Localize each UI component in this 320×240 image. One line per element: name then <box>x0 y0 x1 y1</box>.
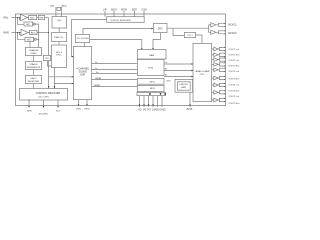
block line out amp outer <box>175 79 193 92</box>
pin VINR stub <box>12 32 22 34</box>
svg-text:(I2C / SPI): (I2C / SPI) <box>38 96 48 98</box>
block mixer B <box>137 85 164 91</box>
svg-text:PLL FILTER: PLL FILTER <box>77 38 89 40</box>
svg-text:MIX2: MIX2 <box>150 88 156 90</box>
svg-text:SEL &: SEL & <box>56 52 63 54</box>
svg-text:MCKI: MCKI <box>121 8 127 11</box>
svg-text:4-CHANNEL: 4-CHANNEL <box>76 68 90 71</box>
block PCM processor <box>137 59 164 75</box>
wire fork <box>216 23 225 25</box>
block analog output driver <box>193 43 212 101</box>
svg-text:VSS2: VSS2 <box>84 109 90 111</box>
wire ADC L out to bus <box>45 17 49 19</box>
wire mic gain L <box>32 23 34 25</box>
wire dsp out 1 <box>92 63 138 65</box>
svg-text:ANALOG AMP: ANALOG AMP <box>196 70 211 73</box>
svg-text:CSN: CSN <box>141 8 146 11</box>
node dot R1 <box>17 32 18 33</box>
block SRC <box>153 23 167 32</box>
crystal X1 body <box>57 7 61 10</box>
svg-text:VD: VD <box>138 109 142 111</box>
pin tick d6 <box>161 96 163 107</box>
pin arrow out <box>224 53 225 54</box>
svg-text:MIX1: MIX1 <box>150 81 156 83</box>
buffer U11 <box>211 30 216 34</box>
pin LR tick <box>104 11 106 17</box>
svg-text:SDTI: SDTI <box>132 8 138 11</box>
wire osc to pll <box>58 28 60 32</box>
svg-text:VSS1: VSS1 <box>76 109 82 111</box>
svg-text:DAC2: DAC2 <box>31 77 38 80</box>
pin arrow VSS2 <box>86 104 88 106</box>
arrow into control reg a <box>48 86 50 88</box>
svg-text:CONTROL REGISTERS: CONTROL REGISTERS <box>110 20 131 22</box>
pin arrow SEN <box>28 106 30 108</box>
arrowheads dark <box>17 17 193 108</box>
pin BICK tick <box>113 11 115 17</box>
pad dot 1 <box>149 93 150 95</box>
block PLL filter <box>75 34 89 42</box>
svg-text:So: So <box>165 74 168 76</box>
block HPF L <box>38 15 44 19</box>
output buffer B1 <box>212 48 214 50</box>
svg-text:VOUT3 Rch: VOUT3 Rch <box>228 79 239 81</box>
block PLL2 <box>184 32 195 37</box>
buffer U10 <box>211 23 216 27</box>
pin VSS1 tick <box>78 100 80 106</box>
pin arrow SCL <box>43 106 45 108</box>
wire <box>84 43 86 47</box>
svg-text:LPF: LPF <box>45 58 50 60</box>
pin arrow out <box>224 101 225 102</box>
svg-text:SEN: SEN <box>27 110 32 112</box>
svg-text:CHARGE: CHARGE <box>29 49 39 52</box>
wire pll to dpll <box>58 42 60 45</box>
svg-text:VOUT5 Lch: VOUT5 Lch <box>228 96 239 98</box>
pin SDA tick <box>57 100 59 107</box>
pin tick d2 <box>143 96 145 107</box>
block line out amp inner <box>177 82 190 90</box>
pin arrow out <box>224 71 225 72</box>
arrow into dsp 2 <box>72 76 74 78</box>
wire feedback L <box>17 18 24 25</box>
pin arrow d4 <box>152 104 154 106</box>
pin arrow out <box>224 83 225 84</box>
pin arrow out <box>224 79 225 80</box>
pin arrow out <box>224 26 225 27</box>
svg-text:VOUT4 Lch: VOUT4 Lch <box>228 85 239 87</box>
pin tick d1 <box>139 96 141 107</box>
block ADC R <box>30 30 37 34</box>
block MIC gain R <box>25 37 34 41</box>
pin arrow out <box>224 90 225 91</box>
wire dpll out to dsp <box>55 68 74 84</box>
wire <box>28 17 29 19</box>
svg-text:VOUT1 Rch: VOUT1 Rch <box>228 55 239 57</box>
pin arrow d2 <box>143 104 145 106</box>
wire mic gain R <box>34 38 35 40</box>
svg-text:VOUT1 Lch: VOUT1 Lch <box>228 49 239 51</box>
wire mic gain R down <box>29 42 31 48</box>
svg-text:DVDD DVSS: DVDD DVSS <box>152 109 166 111</box>
svg-text:OUT: OUT <box>200 74 205 76</box>
svg-text:OSC: OSC <box>57 20 62 22</box>
block oscillator <box>52 17 67 29</box>
arrow into dsp 1 <box>72 56 74 58</box>
wire opamp L lower input <box>19 18 20 20</box>
pin arrow out <box>224 86 225 87</box>
output buffer B7 <box>212 84 214 86</box>
node dot L1 <box>17 17 18 18</box>
svg-text:MCKO1: MCKO1 <box>228 25 237 27</box>
pin arrow d3 <box>148 104 150 106</box>
pin arrow out <box>224 62 225 63</box>
block charge pump <box>25 47 41 55</box>
wire fork <box>218 32 225 34</box>
svg-text:ADC: ADC <box>30 16 35 19</box>
adc bus vertical <box>48 18 50 56</box>
svg-text:STABLE: STABLE <box>29 63 38 66</box>
pin arrow out <box>224 33 225 34</box>
op-amp A1 <box>21 14 28 20</box>
svg-text:VOUT2 Rch: VOUT2 Rch <box>228 65 239 67</box>
wire <box>209 31 211 33</box>
svg-text:CONTROL REGISTER: CONTROL REGISTER <box>36 92 61 95</box>
svg-text:XTAL PLL: XTAL PLL <box>54 36 65 39</box>
pin arrow out <box>224 76 225 77</box>
svg-text:VINR: VINR <box>3 31 9 34</box>
MCKO buffer tree <box>209 23 226 35</box>
crystal X1 leg XTI <box>55 7 57 17</box>
wire opamp R lower input <box>19 33 21 35</box>
pin arrow out <box>224 61 225 62</box>
pin VSS2 tick <box>86 100 88 106</box>
block serial interface <box>107 17 145 23</box>
wire <box>209 24 211 26</box>
block DPLL tall <box>52 45 67 68</box>
block mixer A <box>137 78 164 84</box>
block interface buffer <box>137 49 166 59</box>
wire control bus a <box>48 77 50 88</box>
wire pcm out 2 <box>164 70 193 72</box>
output buffer B8 <box>212 91 214 93</box>
node dot bus <box>48 32 49 33</box>
svg-text:MIC: MIC <box>27 39 31 41</box>
svg-text:SRC: SRC <box>158 28 163 30</box>
pin tick d3 <box>148 96 150 107</box>
wire fork <box>216 31 225 33</box>
pin arrow out <box>224 23 225 24</box>
output buffer B2 <box>212 54 214 56</box>
wire pll filter right <box>90 40 142 50</box>
block control register bottom <box>20 89 68 101</box>
wire <box>33 84 35 89</box>
pad dot 2 <box>160 93 161 95</box>
wire dsp out 2 <box>92 69 138 71</box>
pin arrow out <box>224 47 225 48</box>
svg-text:MCKO2: MCKO2 <box>228 33 237 35</box>
wire lineout gnd <box>189 92 191 107</box>
svg-text:(I2C/SPI): (I2C/SPI) <box>39 113 48 115</box>
pin arrow out <box>224 93 225 94</box>
gain stage triangle L <box>34 23 36 26</box>
svg-text:ADC: ADC <box>31 31 36 34</box>
node dot sen <box>29 100 30 101</box>
svg-text:Ro: Ro <box>165 68 169 70</box>
wire ADC R out to bus <box>37 32 49 34</box>
arrow into buffer box 1 <box>141 48 143 50</box>
svg-text:XTI: XTI <box>50 5 54 8</box>
wire dsp out 5 <box>92 86 138 88</box>
wire pcm out 3 <box>164 76 193 78</box>
wire fork <box>218 25 225 27</box>
output buffers column <box>212 23 226 103</box>
pin VINL stub <box>12 17 21 19</box>
arrow into driver 2 <box>191 70 193 72</box>
output buffer B4 <box>212 63 214 65</box>
block audio DSP core <box>73 46 91 99</box>
output buffer B9 <box>212 99 214 101</box>
wire dsp out 4 <box>92 79 138 81</box>
pad dot 3 <box>164 93 165 95</box>
svg-text:MIC: MIC <box>26 24 30 26</box>
svg-text:PCM: PCM <box>148 67 153 69</box>
svg-text:DPLL: DPLL <box>56 55 62 57</box>
svg-text:SDO: SDO <box>166 81 171 83</box>
svg-text:AVSS: AVSS <box>186 108 192 111</box>
svg-text:DSP: DSP <box>80 74 85 76</box>
svg-text:VOUT2 Lch: VOUT2 Lch <box>228 60 239 62</box>
wire mcko split <box>208 25 210 33</box>
block digital filter small <box>43 55 50 60</box>
pin SEN tick <box>28 100 30 107</box>
pin arrow out <box>224 56 225 57</box>
svg-text:VOUT3 Lch: VOUT3 Lch <box>228 71 239 73</box>
svg-text:BICK: BICK <box>111 8 117 11</box>
output buffer B3 <box>212 59 214 61</box>
wire filter out to dsp <box>49 61 74 77</box>
pin MCKI tick <box>123 11 125 17</box>
pin arrow out <box>224 65 225 66</box>
svg-text:RAM: RAM <box>149 54 154 57</box>
pin arrow d1 <box>139 104 141 106</box>
node dot L2 <box>19 17 20 18</box>
wire control bus top <box>72 20 107 57</box>
arrow into driver 3 <box>191 76 193 78</box>
svg-text:VS TST: VS TST <box>143 109 152 111</box>
svg-text:HPF: HPF <box>39 17 44 19</box>
block ADC L <box>29 15 37 19</box>
pin arrow out <box>224 98 225 99</box>
wire src bottom <box>153 33 161 50</box>
crystal X1 leg XTO <box>61 7 63 17</box>
wire <box>37 17 39 19</box>
pin arrow out <box>224 68 225 69</box>
wire <box>33 56 35 62</box>
svg-text:VOUT4 Rch: VOUT4 Rch <box>228 91 239 93</box>
wire <box>33 70 35 76</box>
pin arrow gnd <box>189 104 191 106</box>
arrow into dsp 3 <box>72 83 74 85</box>
svg-text:AMP: AMP <box>181 86 186 89</box>
svg-text:LINEOUT: LINEOUT <box>179 84 189 86</box>
wire <box>28 32 30 34</box>
wire branch to pll2 <box>173 28 184 35</box>
pin arrow out <box>224 50 225 51</box>
pin SCL tick <box>43 100 45 107</box>
pin SDTI tick <box>134 11 136 17</box>
pin arrow SDA <box>57 106 59 108</box>
wire gain L to rail <box>36 24 38 47</box>
svg-text:PUMP: PUMP <box>30 53 37 55</box>
pin tick d4 <box>152 96 154 107</box>
svg-text:DATA1: DATA1 <box>95 77 102 80</box>
svg-text:L/R: L/R <box>103 8 107 11</box>
svg-text:VINL: VINL <box>3 16 9 19</box>
wire pcm out 1 <box>164 63 193 65</box>
wire src out right <box>167 27 209 29</box>
wire gain R out <box>37 38 39 40</box>
block voltage reference <box>25 61 41 69</box>
svg-text:DATA2: DATA2 <box>94 84 101 87</box>
arrow into control reg b <box>54 86 56 88</box>
svg-text:SOUND: SOUND <box>79 71 88 73</box>
svg-text:PLL1: PLL1 <box>187 35 193 37</box>
svg-text:XTO: XTO <box>61 5 66 8</box>
op-amp A2 <box>21 29 28 35</box>
svg-text:REFERENCE: REFERENCE <box>27 67 41 69</box>
wire pll2 out <box>196 35 202 43</box>
wire filter out to dpll <box>47 61 51 66</box>
output buffer B6 <box>212 77 214 79</box>
block pad ring strip <box>137 92 166 95</box>
svg-text:SCL: SCL <box>56 110 61 112</box>
arrow into buffer box 2 <box>152 48 154 50</box>
pin arrow out <box>224 57 225 58</box>
wire feedback R <box>17 33 25 40</box>
arrow into driver 1 <box>191 63 193 65</box>
pin tick d5 <box>157 96 159 107</box>
svg-text:VOUT5 Rch: VOUT5 Rch <box>228 103 239 105</box>
gain stage triangle R <box>35 38 37 41</box>
wire dsp out 3 <box>92 73 138 75</box>
chip outer border <box>16 14 226 106</box>
arrow into src <box>151 28 153 30</box>
node dot R2 <box>19 32 20 33</box>
block regulator <box>25 75 41 83</box>
tiny texts <box>3 5 239 116</box>
output buffer B5 <box>212 69 214 71</box>
block PLL <box>52 32 67 41</box>
pin CSN tick <box>143 11 145 17</box>
svg-text:REGISTER: REGISTER <box>28 81 40 83</box>
wire control bus b <box>54 84 56 89</box>
pin arrow out <box>224 30 225 31</box>
block MIC gain L <box>24 22 33 26</box>
pin arrow VSS1 <box>78 104 80 106</box>
wire pll filter up to src <box>83 29 153 35</box>
